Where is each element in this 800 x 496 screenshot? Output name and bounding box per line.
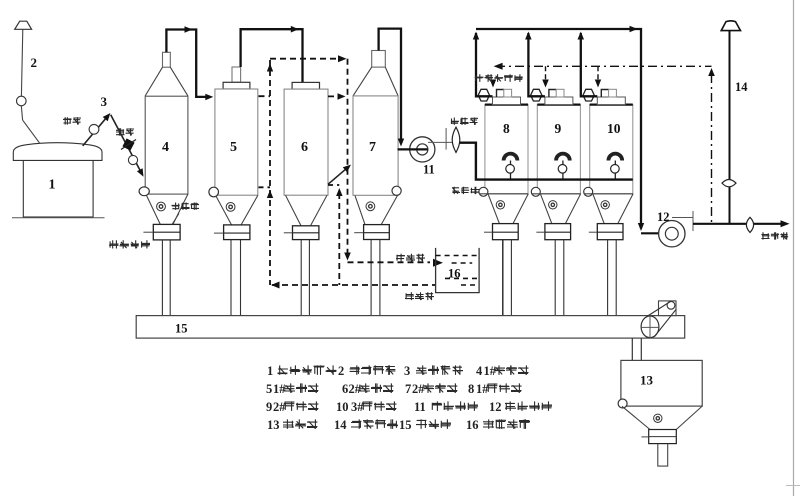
label 11 bbox=[423, 163, 435, 177]
label return pipe (huishuiguan) bbox=[396, 254, 425, 262]
vessel 5 body bbox=[215, 89, 258, 195]
vessel 9 drop pipe to conveyor bbox=[555, 240, 564, 316]
svg-text:3: 3 bbox=[404, 364, 410, 378]
bag cage symbol inside vessel 10 bbox=[608, 154, 622, 180]
label 16 bbox=[448, 267, 461, 281]
vessel 4 cap bbox=[163, 52, 171, 67]
dashed stub into vessel 5 bottom right bbox=[259, 186, 271, 188]
svg-text:3#: 3# bbox=[351, 400, 364, 414]
label 2 bbox=[31, 55, 38, 70]
vessel 10 discharge valve box bbox=[589, 224, 623, 240]
fan 12 (clean gas fan) bbox=[659, 221, 685, 247]
circle on vessel 5 bottom-left corner bbox=[209, 187, 219, 197]
vibrator symbol on silo 13 funnel bbox=[654, 414, 662, 422]
label 10 bbox=[607, 121, 621, 136]
pneumatic valve (lens shape) bbox=[452, 127, 460, 152]
vessel 6 drop pipe to conveyor bbox=[301, 240, 309, 316]
furnace 1 dome lid bbox=[13, 143, 102, 161]
vessel 10 blowback motor hexagon bbox=[583, 89, 594, 101]
dashed stub into vessel 5 top right bbox=[259, 95, 271, 97]
explosion vent circle on vessel 8 funnel bbox=[479, 187, 488, 196]
fan 11 outlet line to pneumatic valve bbox=[428, 128, 453, 150]
label vibrator (zhendongqi) bbox=[172, 203, 200, 210]
vessel 5 collar bbox=[223, 82, 250, 89]
vessel 6 discharge valve box bbox=[284, 226, 319, 240]
svg-text:16: 16 bbox=[466, 418, 479, 432]
page bottom border stub bbox=[786, 485, 800, 487]
gas pipe vessel5 -> vessel6 bbox=[241, 26, 303, 83]
vessel 7 discharge funnel bbox=[355, 196, 397, 225]
vessel 5 discharge funnel bbox=[216, 195, 257, 225]
svg-text:10: 10 bbox=[336, 400, 349, 414]
vessel 9 top plate bbox=[545, 97, 573, 105]
svg-text:5: 5 bbox=[230, 140, 237, 155]
svg-text:11: 11 bbox=[414, 400, 426, 414]
svg-text:2: 2 bbox=[31, 55, 38, 70]
circle on silo 13 left slope bbox=[618, 399, 627, 408]
clean gas header pipe to fan 12 bbox=[476, 26, 644, 231]
blowback riser from outlet pipe (dash-dot vertical) bbox=[708, 68, 715, 224]
water riser C (dashed vertical x=339.3) bbox=[336, 188, 343, 285]
conveyor 15 (scraper machine) trough bbox=[136, 316, 685, 339]
circle valve on pipe 3 lower bbox=[128, 155, 137, 164]
label 14 bbox=[735, 80, 748, 94]
svg-text:6: 6 bbox=[342, 382, 348, 396]
label ash motor (xiehuidianji) bbox=[109, 240, 150, 248]
lens valve on stack 14 bbox=[722, 180, 736, 187]
gas pipe vessel4 -> vessel5 bbox=[166, 26, 213, 100]
svg-text:8: 8 bbox=[468, 382, 474, 396]
blowback drop into vessel 9 bbox=[542, 66, 549, 87]
blowback drop into vessel 10 bbox=[595, 66, 601, 87]
stack 14 vertical pipe bbox=[729, 31, 731, 224]
svg-text:1: 1 bbox=[49, 178, 56, 193]
elevator head box on conveyor end bbox=[659, 301, 677, 316]
furnace 1 (closed calcium carbide furnace) body bbox=[23, 160, 93, 217]
ground line under furnace bbox=[12, 217, 105, 219]
vessel 4 discharge funnel bbox=[147, 194, 188, 224]
flue 2 vertical duct upper bbox=[21, 29, 22, 96]
silo 13 discharge funnel bbox=[622, 406, 702, 429]
bag cage symbol inside vessel 9 bbox=[556, 154, 570, 180]
vessel 8 top bracket and block bbox=[497, 89, 512, 97]
svg-text:8: 8 bbox=[503, 121, 510, 136]
bag cage symbol inside vessel 8 bbox=[504, 154, 518, 180]
clean gas riser from vessel 8 bbox=[473, 32, 493, 97]
label 15 bbox=[175, 322, 188, 336]
vessel 9 discharge funnel bbox=[531, 194, 580, 224]
main outlet pipe to users bbox=[693, 220, 790, 227]
label 4 bbox=[162, 140, 169, 155]
butterfly valve circle on pipe 3 bbox=[89, 124, 99, 134]
vibrator symbol on vessel 7 funnel bbox=[366, 202, 375, 211]
vessel 8 blowback motor hexagon bbox=[478, 89, 489, 101]
svg-text:3: 3 bbox=[101, 94, 108, 109]
blowback down arrow into vessel 8 bbox=[490, 80, 496, 88]
label blowback reducer (fanchuijiansuji) bbox=[475, 74, 523, 82]
elevator drive sprocket (ellipse) bbox=[641, 316, 659, 338]
vessel 8 discharge valve box bbox=[484, 224, 518, 240]
water riser A (dashed vertical x=270) bbox=[267, 60, 273, 285]
stack 14 rain cap bbox=[721, 21, 740, 31]
tank 16 (circulating water tank) walls bbox=[436, 248, 480, 293]
vessel 9 body bbox=[537, 105, 580, 194]
vessel 4 cone top bbox=[145, 67, 188, 96]
water return pipe (dashed) to tank 16 bbox=[348, 259, 444, 267]
silo 13 body bbox=[621, 360, 702, 406]
label 8 bbox=[503, 121, 510, 136]
explosion vent circle on vessel 9 funnel bbox=[531, 187, 540, 196]
svg-text:6: 6 bbox=[301, 140, 308, 155]
vessel 10 discharge funnel bbox=[584, 194, 633, 224]
blowback control line (dash-dot) horizontal bbox=[494, 63, 712, 70]
label 12 bbox=[657, 210, 670, 224]
label 1 bbox=[49, 178, 56, 193]
vessel 5 discharge valve box bbox=[214, 225, 250, 240]
svg-text:5: 5 bbox=[266, 382, 272, 396]
svg-text:13: 13 bbox=[640, 373, 654, 388]
clean gas riser from vessel 9 bbox=[525, 32, 545, 97]
gas pipe vessel6 -> vessel7 (diagonal) bbox=[328, 165, 351, 185]
svg-text:1#: 1# bbox=[476, 382, 489, 396]
dashed stub from vessel 6 top right bbox=[328, 93, 346, 100]
water downcomer B (dashed vertical x=347.5) bbox=[344, 59, 351, 261]
label 3 bbox=[101, 94, 108, 109]
legend text block bbox=[266, 364, 552, 432]
flue 2 valve circle bbox=[17, 96, 27, 106]
svg-text:2: 2 bbox=[338, 364, 344, 378]
label 5 bbox=[230, 140, 237, 155]
explosion vent circle on vessel 10 funnel bbox=[584, 187, 593, 196]
svg-text:9: 9 bbox=[266, 400, 272, 414]
vessel 10 drop pipe to conveyor bbox=[608, 240, 617, 316]
svg-text:1: 1 bbox=[267, 364, 273, 378]
vessel 8 body bbox=[485, 105, 528, 194]
vibrator symbol on vessel 10 funnel bbox=[601, 201, 609, 209]
clean gas riser from vessel 10 bbox=[578, 32, 598, 97]
svg-text:9: 9 bbox=[555, 121, 562, 136]
vessel 6 body bbox=[284, 89, 328, 195]
svg-text:7: 7 bbox=[405, 382, 411, 396]
dashed stub into vessel 6 bottom right bbox=[328, 184, 339, 186]
lens valve on outlet pipe bbox=[746, 217, 753, 232]
vessel 9 discharge valve box bbox=[536, 224, 570, 240]
vessel 8 discharge funnel bbox=[479, 194, 528, 224]
svg-text:4: 4 bbox=[476, 364, 483, 378]
vessel 6 collar bbox=[292, 82, 319, 89]
vessel 10 body bbox=[590, 105, 633, 194]
label 9 bbox=[555, 121, 562, 136]
flue 2 cap (cone) bbox=[15, 21, 32, 29]
circle on vessel 7 bottom-right corner bbox=[392, 186, 401, 195]
svg-text:12: 12 bbox=[657, 210, 670, 224]
gas pipe vessel7 -> fan11 bbox=[379, 29, 405, 147]
label inlet pipe (jinshuiguan) bbox=[405, 292, 434, 300]
svg-text:15: 15 bbox=[399, 418, 412, 432]
vibrator symbol on vessel 9 funnel bbox=[549, 201, 557, 209]
thick raw gas duct from valve into bag chambers bbox=[460, 143, 633, 180]
vessel 7 body bbox=[353, 96, 398, 195]
circle on vessel 4 bottom-left corner bbox=[139, 187, 149, 196]
pipe 3 falling segment into vessel 4 bbox=[111, 115, 144, 177]
vessel 9 top bracket and block bbox=[549, 89, 564, 97]
svg-text:4: 4 bbox=[162, 140, 169, 155]
tank 16 water level dashes bbox=[436, 256, 480, 286]
knife valve (solid) on pipe 3 bbox=[121, 138, 136, 150]
feed pipe from conveyor to silo 13 bbox=[632, 338, 641, 360]
flue 2 duct lower + slant to furnace lid bbox=[21, 106, 39, 143]
elevator belt lines bbox=[646, 301, 676, 336]
vessel 7 cap bbox=[372, 51, 386, 68]
pipe 3 rising segment from furnace lid bbox=[83, 113, 111, 146]
vessel 5 drop pipe to conveyor bbox=[231, 240, 241, 316]
svg-text:16: 16 bbox=[448, 267, 461, 281]
label butterfly valve (die fa) bbox=[63, 117, 81, 124]
vessel 5 neck bbox=[232, 67, 241, 82]
svg-text:15: 15 bbox=[175, 322, 188, 336]
water inlet pipe (dashed) from tank to left bbox=[271, 282, 436, 289]
svg-text:11: 11 bbox=[423, 163, 435, 177]
label 6 bbox=[301, 140, 308, 155]
vessel 8 drop pipe to conveyor bbox=[503, 240, 512, 316]
fan 11 (raw gas fan) bbox=[398, 137, 435, 162]
svg-text:14: 14 bbox=[735, 80, 748, 94]
label pneumatic valve (qidongfa) bbox=[451, 118, 478, 125]
dashed top run (y=58.7) bbox=[270, 55, 347, 62]
vessel 4 discharge valve box bbox=[143, 214, 180, 240]
label 7 bbox=[369, 140, 376, 155]
page right border line bbox=[793, 0, 795, 496]
vibrator symbol on vessel 8 funnel bbox=[496, 201, 504, 209]
svg-text:10: 10 bbox=[607, 121, 621, 136]
svg-text:12: 12 bbox=[489, 400, 502, 414]
label knife valve (dao fa) bbox=[116, 128, 134, 135]
pipe from header down-leg into fan 12 bbox=[641, 232, 659, 234]
vessel 10 top plate bbox=[597, 97, 625, 105]
vessel 4 drop pipe to conveyor bbox=[162, 240, 170, 316]
vessel 7 drop pipe to conveyor bbox=[371, 240, 380, 316]
svg-text:2#: 2# bbox=[412, 382, 425, 396]
silo 13 discharge valve box bbox=[641, 430, 676, 444]
vessel 8 top plate bbox=[493, 97, 521, 105]
elevator small pulley bbox=[667, 301, 675, 309]
label explosion vent (fangbaokong) bbox=[452, 187, 479, 194]
vibrator symbol on vessel 5 funnel bbox=[226, 203, 235, 212]
fan 12 outlet line with flange bbox=[672, 211, 693, 231]
label 13 bbox=[640, 373, 654, 388]
svg-text:7: 7 bbox=[369, 140, 376, 155]
vessel 9 blowback motor hexagon bbox=[531, 89, 542, 101]
silo 13 bottom pipe bbox=[658, 444, 668, 467]
vessel 10 top bracket and block bbox=[601, 89, 616, 97]
svg-text:2#: 2# bbox=[273, 400, 286, 414]
label to users (zhiyonghu) bbox=[761, 232, 788, 239]
vessel 4 body bbox=[145, 96, 188, 194]
vessel 7 cone top bbox=[353, 67, 398, 96]
svg-text:14: 14 bbox=[334, 418, 347, 432]
vessel 7 discharge valve box bbox=[354, 225, 389, 240]
vibrator symbol on vessel 4 funnel bbox=[157, 202, 166, 211]
svg-text:13: 13 bbox=[267, 418, 280, 432]
vessel 6 discharge funnel bbox=[286, 195, 328, 226]
